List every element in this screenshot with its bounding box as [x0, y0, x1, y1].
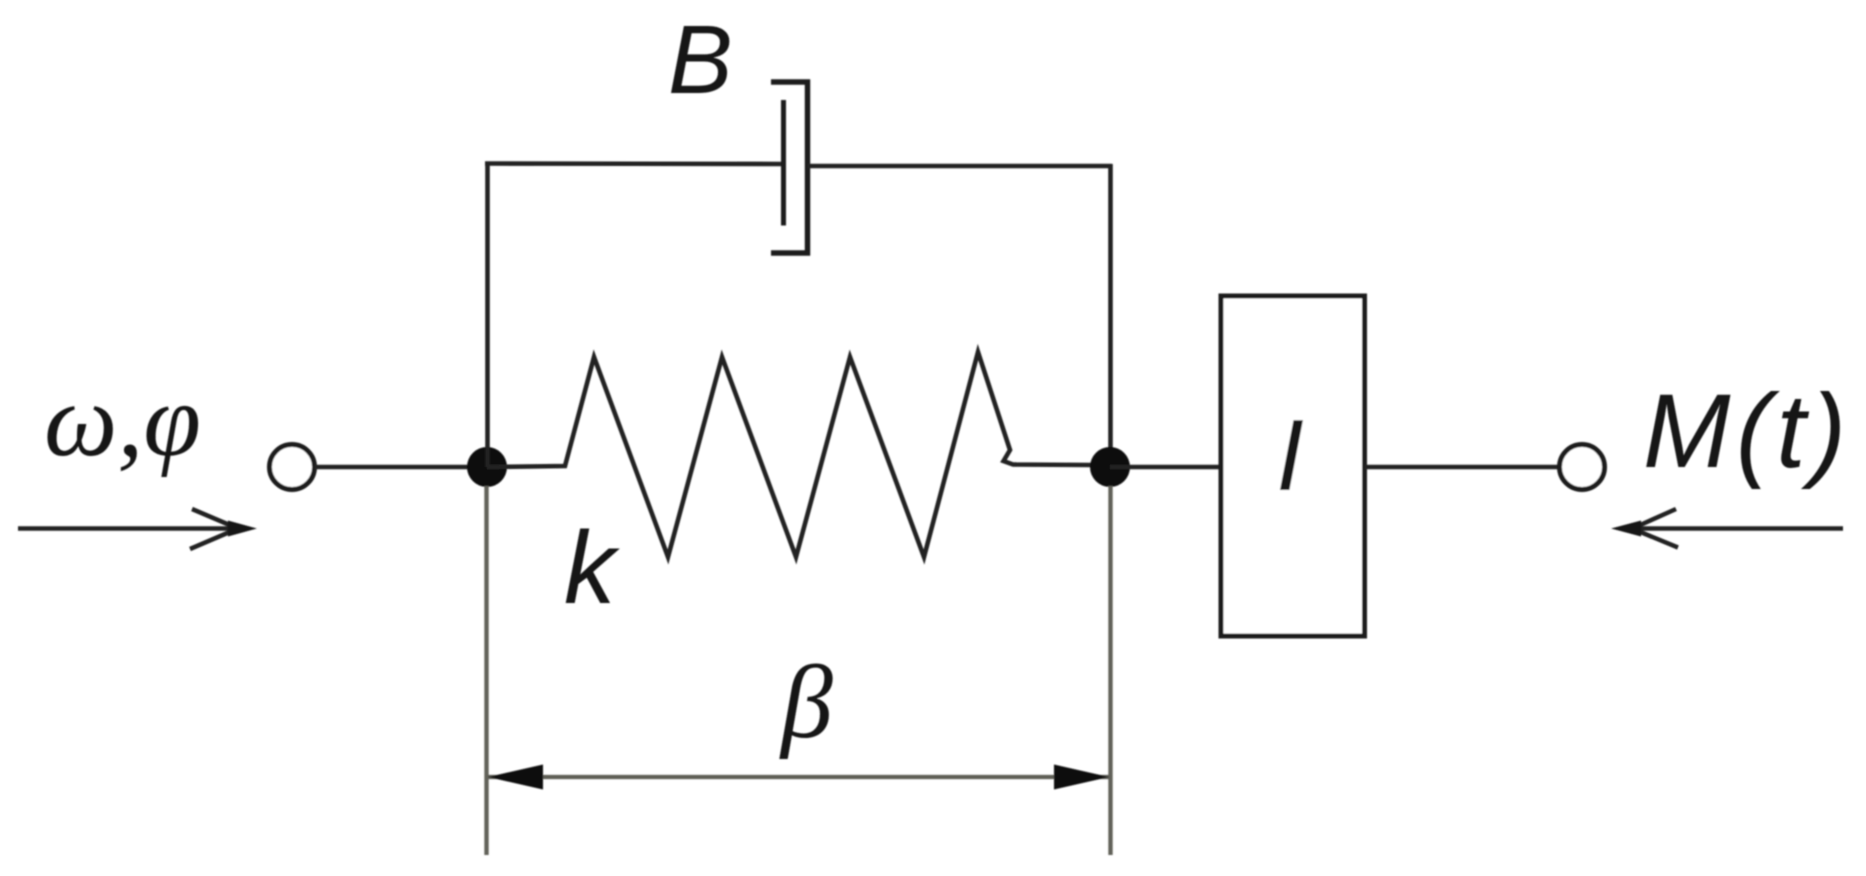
damper B (dashpot: piston rod + cup bracket) — [771, 82, 808, 253]
svg-text:k: k — [564, 510, 620, 625]
dimension extension line left — [484, 486, 488, 855]
svg-text:M(t): M(t) — [1643, 373, 1852, 490]
input arrow (left, pointing right) — [18, 509, 240, 549]
wire: top horizontal, damper cup to right corner — [808, 164, 1113, 169]
inertia I (box) — [1221, 296, 1365, 636]
wire: left vertical riser of parallel branch — [485, 162, 490, 468]
torque arrow (right, pointing left) — [1630, 509, 1843, 548]
dimension arrowhead right — [1054, 765, 1109, 790]
wire: left terminal to node 1 — [315, 465, 488, 470]
node 2 (right junction dot) — [1090, 447, 1130, 487]
node 1 (left junction dot) — [467, 447, 507, 487]
terminal right — [1560, 445, 1605, 490]
svg-text:I: I — [1276, 400, 1304, 512]
wire: right vertical riser of parallel branch — [1108, 164, 1113, 467]
dimension line β — [487, 775, 1110, 779]
spring k (zigzag) — [487, 352, 1091, 557]
wire: top horizontal, left half to damper piston — [485, 161, 783, 166]
terminal left — [270, 445, 315, 490]
svg-text:B: B — [668, 5, 733, 114]
wire: inertia box to right terminal — [1365, 465, 1560, 470]
dimension arrowhead left — [488, 765, 543, 790]
svg-text:ω,φ: ω,φ — [44, 363, 201, 478]
dimension extension line right — [1108, 486, 1112, 855]
wire: node 2 to inertia box — [1110, 465, 1222, 470]
svg-text:β: β — [779, 645, 833, 760]
